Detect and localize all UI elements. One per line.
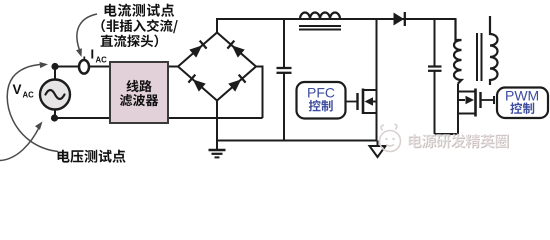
label 电流测试点 xyxy=(105,4,175,17)
transformer T1 secondary winding xyxy=(490,16,498,85)
label 滤波器 (filter line 2) xyxy=(120,94,158,106)
wire C2 upper lead xyxy=(434,19,436,67)
svg-text:PFC: PFC xyxy=(307,85,335,101)
wire Q2 gate lead end tick xyxy=(493,96,495,104)
wire filter to bridge xyxy=(168,66,178,68)
transformer T1 core xyxy=(477,33,482,81)
diode D1 (bridge upper-left) xyxy=(189,41,206,58)
PWM controller U2 box xyxy=(497,88,548,119)
wire bottom rail (source to bridge right riser) xyxy=(55,117,263,119)
wire output common xyxy=(435,133,459,135)
annotation arrow to node B (curve) xyxy=(0,126,40,161)
bridge rectifier BR1 diamond xyxy=(178,33,256,101)
wire source top stub xyxy=(54,67,56,81)
watermark text 电源研发精英圈 xyxy=(408,133,509,148)
capacitor C2 plates xyxy=(428,67,442,71)
annotation arrow to current probe (head) xyxy=(76,48,82,57)
label 控制 (PWM) xyxy=(510,102,534,114)
PFC controller U1 box xyxy=(297,82,346,119)
diode D5 (boost rectifier) xyxy=(394,12,405,26)
node A (top voltage test node) xyxy=(51,63,58,70)
svg-text:V: V xyxy=(13,82,22,97)
ground (earth, bridge return) xyxy=(209,150,226,157)
wire bridge right riser xyxy=(256,67,263,119)
wire gnd stub xyxy=(377,141,379,147)
svg-text:PWM: PWM xyxy=(505,88,539,104)
transformer T1 primary winding xyxy=(454,19,461,84)
annotation arrow to node B (head) xyxy=(35,122,43,130)
svg-text:I: I xyxy=(91,47,95,62)
wire Q2 drain/source vertical xyxy=(457,84,459,135)
label 电压测试点 xyxy=(58,150,126,163)
label 控制 (PFC) xyxy=(309,100,333,112)
inductor L1 (boost choke) xyxy=(299,13,341,30)
node B (bottom voltage test node) xyxy=(51,114,58,121)
svg-text:AC: AC xyxy=(23,91,35,100)
AC source V1 xyxy=(40,80,70,110)
EMI line filter FL1 box xyxy=(110,62,168,123)
label （非插入交流/ xyxy=(101,19,177,33)
ground (chassis triangle) xyxy=(370,146,386,157)
diode D2 (bridge upper-right) xyxy=(227,41,244,58)
wire C2 lower lead xyxy=(434,71,436,134)
annotation arrow to current probe (curve) xyxy=(77,14,97,50)
wire Q2 gate lead xyxy=(481,99,495,101)
annotation arrow to node A (curve) xyxy=(7,64,58,151)
diode D3 (bridge lower-left) xyxy=(188,75,205,92)
svg-text:AC: AC xyxy=(96,56,108,65)
wire Q1 drain/source vertical xyxy=(376,19,378,141)
wire C1 lower lead xyxy=(283,73,285,141)
wire bridge top riser and DC top rail xyxy=(217,19,456,40)
wire ground bus xyxy=(217,140,378,142)
wire Q1 gate lead xyxy=(346,101,358,103)
annotation arrow to node A (head) xyxy=(40,62,49,68)
wire C1 upper lead xyxy=(283,19,285,68)
watermark icon (mascot face) xyxy=(380,124,401,152)
transistor Q2 (PWM MOSFET) xyxy=(458,89,481,117)
label 线路 (filter line 1) xyxy=(127,80,152,92)
wire source bottom stub xyxy=(54,109,56,118)
wire bridge bottom drop xyxy=(216,101,218,151)
capacitor C1 plates xyxy=(277,68,292,73)
transistor Q1 (PFC MOSFET) xyxy=(358,89,377,115)
current probe (clamp) on top rail xyxy=(79,57,89,74)
wire top-left rail (source to filter) xyxy=(55,66,110,68)
label 直流探头） xyxy=(101,35,159,48)
diode D4 (bridge lower-right) xyxy=(228,75,245,92)
